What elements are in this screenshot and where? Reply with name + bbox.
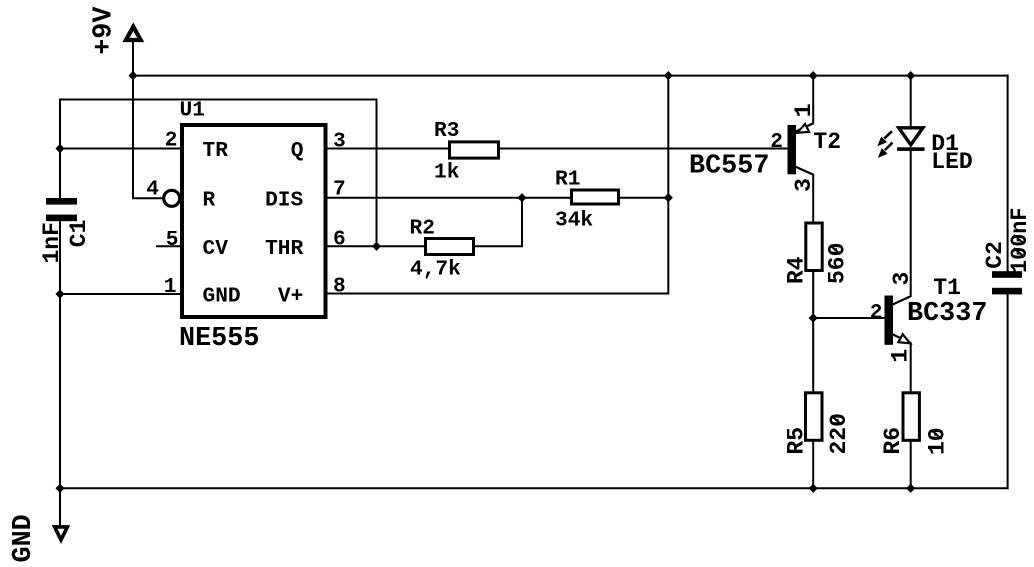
pin 4 inversion bubble: [164, 190, 180, 206]
wire pin 1 GND: [60, 293, 180, 295]
wire left rail upper: [59, 100, 61, 199]
wire R6 bottom to GND rail: [910, 442, 912, 489]
wire R1 right to V+ column: [620, 197, 668, 199]
wire T1 emitter to R6: [910, 343, 912, 391]
wire pin 5 CV stub: [157, 245, 180, 247]
svg-text:2: 2: [165, 129, 178, 153]
svg-text:1: 1: [791, 103, 817, 117]
svg-text:NE555: NE555: [179, 324, 259, 354]
svg-text:8: 8: [333, 275, 346, 299]
svg-text:BC337: BC337: [907, 299, 987, 329]
wire right rail lower from C2: [1007, 294, 1009, 488]
wire pin 3 Q to R3 to T2 base: [327, 148, 788, 150]
resistor R2 4,7k: [410, 216, 474, 281]
svg-text:LED: LED: [931, 149, 972, 175]
svg-text:THR: THR: [265, 237, 303, 261]
svg-text:5: 5: [166, 228, 179, 252]
wire T2 emitter to top rail: [812, 76, 814, 124]
svg-text:R3: R3: [434, 119, 459, 143]
svg-text:T1: T1: [933, 275, 961, 301]
wire GND bottom rail: [60, 487, 1008, 489]
node GND rail left: [55, 484, 64, 493]
capacitor C1 1nF: [39, 198, 92, 264]
svg-text:BC557: BC557: [689, 151, 769, 181]
resistor R1 34k: [555, 167, 619, 232]
svg-text:Q: Q: [291, 139, 304, 163]
svg-text:CV: CV: [203, 237, 229, 261]
op-amp U1 NE555 timer body: [179, 99, 326, 354]
resistor R4 560: [784, 223, 851, 284]
wire R5 bottom to GND rail: [812, 442, 814, 489]
svg-text:7: 7: [333, 178, 346, 202]
svg-text:TR: TR: [203, 139, 229, 163]
resistor R5 220: [784, 393, 852, 455]
svg-text:T2: T2: [813, 129, 841, 155]
svg-text:V+: V+: [278, 285, 303, 309]
power +9V arrow: [89, 6, 140, 55]
node DIS junction: [517, 193, 526, 202]
node V+ rail tap: [664, 71, 673, 80]
pin numbers U1: [146, 129, 345, 300]
resistor R6 10: [880, 393, 951, 455]
svg-text:GND: GND: [9, 514, 39, 562]
node R1 right: [664, 193, 673, 202]
wire pin 2 TR: [60, 148, 180, 150]
svg-text:220: 220: [826, 413, 852, 454]
wire THR feed from left rail: [60, 100, 377, 247]
svg-text:C1: C1: [66, 220, 92, 248]
svg-text:6: 6: [333, 228, 346, 252]
svg-text:R2: R2: [410, 216, 435, 240]
svg-text:1: 1: [164, 275, 177, 299]
node T2 emitter rail tap: [809, 71, 818, 80]
svg-text:3: 3: [333, 129, 346, 153]
svg-text:GND: GND: [203, 285, 241, 309]
svg-text:2: 2: [770, 130, 783, 154]
resistor R3 1k: [434, 119, 499, 185]
svg-text:R: R: [203, 189, 216, 213]
svg-text:2: 2: [870, 301, 883, 325]
node +9V tap: [128, 71, 137, 80]
svg-text:R1: R1: [555, 167, 580, 191]
svg-text:R6: R6: [880, 427, 906, 455]
svg-text:10: 10: [925, 427, 951, 455]
wire LED cathode to T1 collector: [910, 151, 912, 296]
node THR junction: [372, 242, 381, 251]
svg-text:DIS: DIS: [265, 189, 303, 213]
wire pin 6 THR to R2: [327, 245, 424, 247]
wire R2 right up to R1 left node: [475, 198, 522, 247]
svg-text:R4: R4: [784, 256, 810, 284]
svg-text:3: 3: [791, 178, 817, 192]
node A T1 base: [809, 313, 818, 322]
LED D1: [877, 128, 972, 175]
transistor T2 BC557: [689, 103, 841, 191]
wire GND stub: [59, 488, 61, 525]
wire pin 7 DIS to R1: [327, 197, 570, 199]
ground symbol GND: [9, 514, 67, 562]
svg-text:3: 3: [889, 272, 915, 286]
node TR left rail: [55, 144, 64, 153]
wire right rail upper to C2: [1007, 76, 1009, 272]
svg-text:1nF: 1nF: [39, 222, 65, 263]
svg-text:1k: 1k: [434, 161, 460, 185]
svg-text:+9V: +9V: [89, 6, 119, 55]
slashed zeros of value labels: [830, 235, 1024, 439]
wire LED anode to top rail: [910, 76, 912, 127]
wire node A to T1 base: [813, 317, 884, 319]
svg-text:R5: R5: [784, 427, 810, 455]
wire +9V drop to reset pin 4: [133, 41, 162, 198]
wire pin 8 V+ to top rail: [327, 76, 668, 294]
node LED rail tap: [906, 71, 915, 80]
wire left rail lower: [59, 221, 61, 488]
capacitor C2 100nF: [982, 208, 1033, 295]
svg-text:C2: C2: [982, 241, 1008, 269]
svg-text:560: 560: [825, 243, 851, 284]
svg-text:34k: 34k: [555, 209, 593, 233]
node R5 gnd: [809, 484, 818, 493]
svg-text:4: 4: [146, 178, 159, 202]
svg-text:U1: U1: [180, 99, 205, 123]
svg-text:4,7k: 4,7k: [410, 257, 461, 281]
wire R4 bottom through node A to R5: [812, 272, 814, 391]
svg-text:1: 1: [888, 349, 914, 363]
wire T2 collector to R4: [812, 175, 814, 222]
wire +9V top rail: [133, 75, 1008, 77]
transistor T1 BC337: [870, 272, 988, 363]
node pin1 left rail: [55, 289, 64, 298]
node R6 gnd: [906, 484, 915, 493]
pin labels inside U1: [203, 139, 304, 309]
